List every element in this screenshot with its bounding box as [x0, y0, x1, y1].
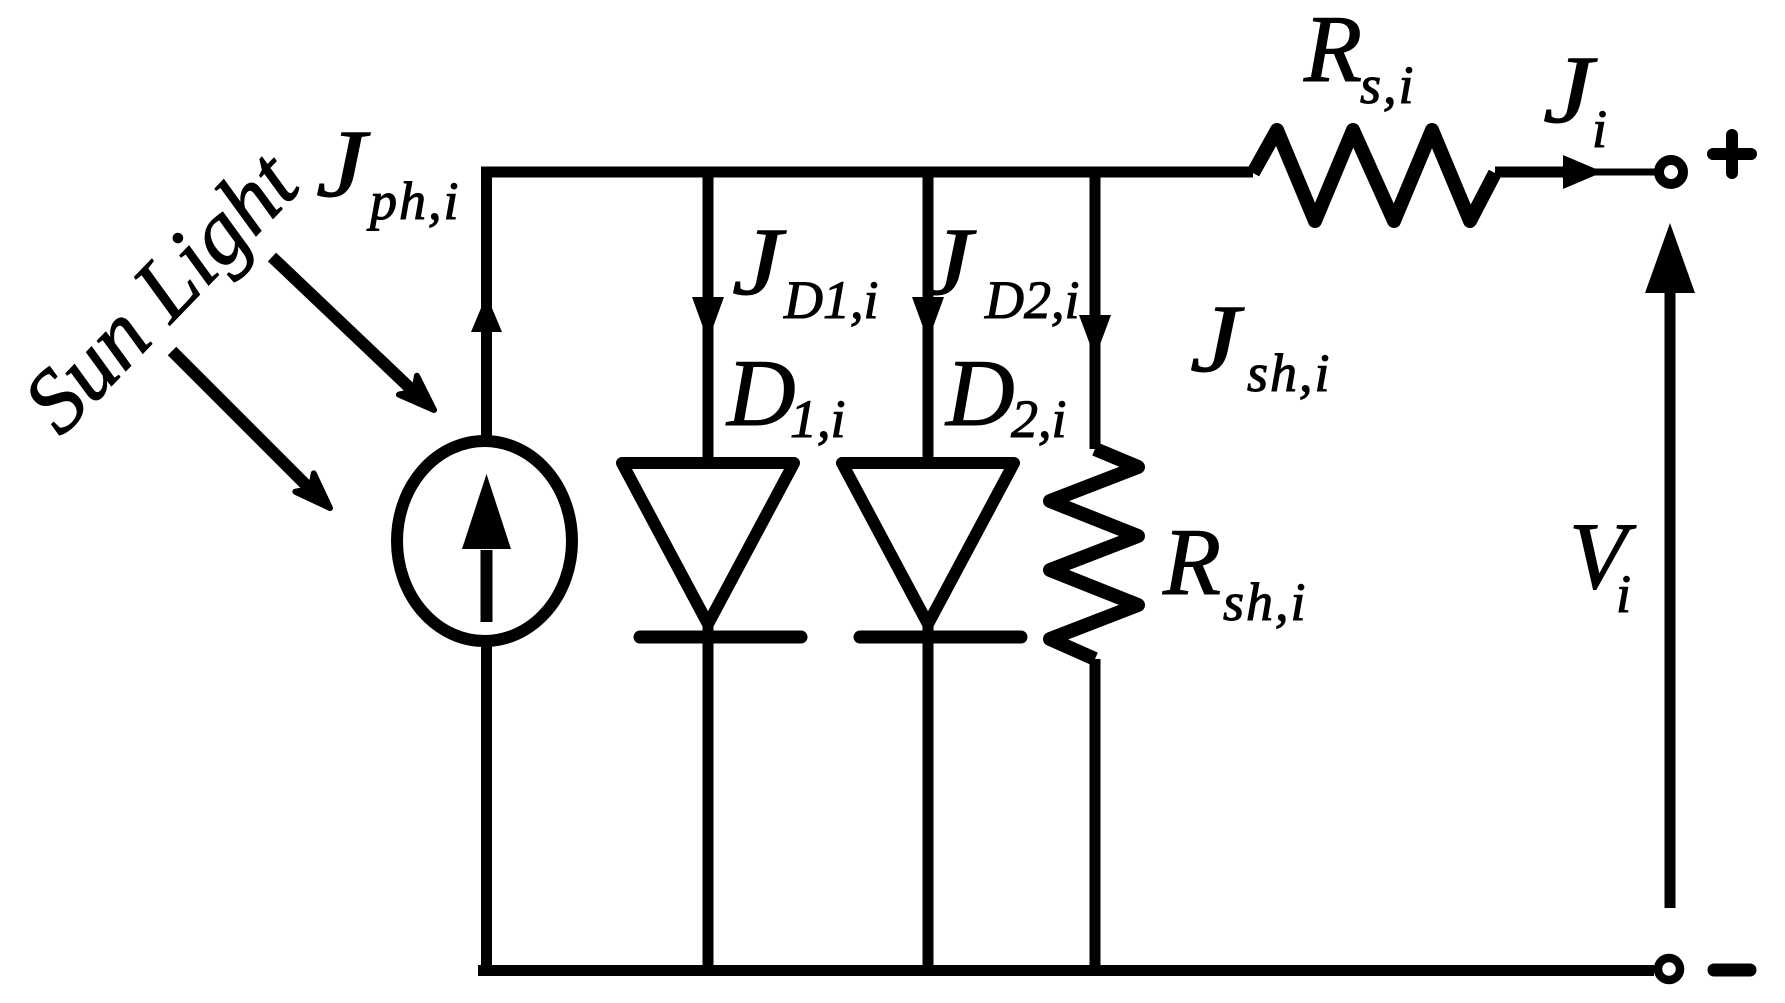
svg-text:sh,i: sh,i	[1223, 572, 1308, 632]
svg-text:J: J	[732, 209, 787, 316]
svg-text:sh,i: sh,i	[1247, 343, 1332, 403]
svg-text:s,i: s,i	[1360, 55, 1416, 115]
svg-text:i: i	[1592, 99, 1607, 159]
svg-text:ph,i: ph,i	[366, 171, 461, 231]
svg-text:i: i	[1616, 564, 1631, 624]
svg-text:D: D	[725, 340, 796, 446]
svg-text:D2,i: D2,i	[984, 270, 1080, 330]
svg-text:J: J	[1190, 286, 1245, 393]
svg-text:D1,i: D1,i	[783, 270, 879, 330]
svg-text:D: D	[944, 340, 1015, 446]
svg-text:J: J	[922, 209, 977, 316]
svg-text:J: J	[1543, 37, 1598, 144]
svg-text:R: R	[1162, 509, 1221, 615]
svg-text:1,i: 1,i	[790, 389, 846, 449]
svg-text:J: J	[316, 111, 371, 218]
svg-text:Sun Light: Sun Light	[4, 132, 318, 452]
svg-text:R: R	[1303, 0, 1362, 102]
svg-text:2,i: 2,i	[1011, 389, 1067, 449]
